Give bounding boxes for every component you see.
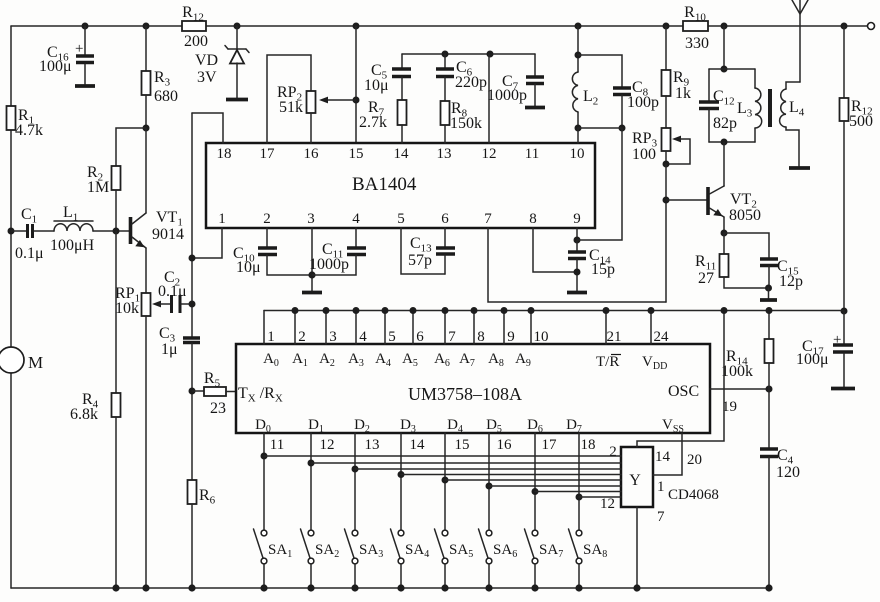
svg-text:Y: Y [629, 472, 641, 489]
svg-text:10μ: 10μ [364, 77, 389, 94]
wire left edge vertical (top rail to R1) [10, 26, 12, 106]
node base bias junction [113, 228, 120, 235]
capacitor C7 (1000p) [534, 54, 536, 76]
wire BA1404 pin 9 stub [576, 228, 578, 240]
svg-text:18: 18 [217, 146, 232, 162]
node R5 tap [189, 388, 196, 395]
resistor R6 [188, 480, 197, 504]
svg-text:1: 1 [267, 329, 275, 345]
capacitor C16 (100u) electrolytic [84, 26, 86, 55]
svg-text:10: 10 [534, 329, 549, 345]
resistor R11 (27) [723, 233, 725, 254]
svg-text:8: 8 [529, 211, 537, 227]
wire C8 line down to pin 9 node [577, 128, 622, 240]
svg-text:8050: 8050 [729, 207, 761, 224]
wire R3 node to R2 top [116, 128, 146, 166]
node R11/C15 bottom [765, 285, 772, 292]
wire BA1404 pin 8 to C14 bottom [533, 228, 577, 272]
inductor L2 [572, 72, 578, 112]
svg-text:17: 17 [260, 146, 276, 162]
wire main vertical net (pin18/pin1/C2/C3) [191, 113, 193, 337]
wire pin 12 to net [488, 54, 490, 143]
capacitor C8 (100p) [613, 86, 631, 90]
svg-text:OSC: OSC [668, 383, 699, 400]
resistor R12 (200) in top rail [182, 21, 206, 31]
svg-text:1000p: 1000p [309, 256, 349, 273]
capacitor C11 (1000p) under pin 4 [355, 228, 357, 247]
node dot L2 branch tap [575, 23, 582, 30]
svg-text:82p: 82p [713, 115, 737, 132]
svg-text:100p: 100p [627, 94, 659, 111]
wiper RP1 to C2 [152, 301, 161, 308]
wire C8 parallel branch [578, 55, 622, 87]
capacitor C10 (10u) under pin 2 [266, 228, 268, 247]
resistor R3 (680) [145, 26, 147, 71]
svg-text:13: 13 [437, 146, 452, 162]
switch SA1 D0 branch [263, 433, 265, 530]
transistor VT1 (9014) [129, 217, 133, 244]
switch SA6 D5 branch [488, 433, 490, 530]
svg-text:23: 23 [210, 400, 226, 417]
svg-text:24: 24 [654, 329, 670, 345]
svg-text:57p: 57p [408, 252, 432, 269]
node dot R9 branch tap [663, 23, 670, 30]
svg-text:500: 500 [849, 113, 873, 130]
svg-text:7: 7 [484, 211, 492, 227]
svg-text:11: 11 [525, 146, 539, 162]
wire CD4068 pin 7 to ground rail [636, 507, 638, 588]
svg-text:+: + [75, 41, 83, 57]
svg-text:27: 27 [698, 270, 714, 287]
svg-text:15: 15 [455, 437, 470, 453]
node dot tank branch tap [721, 23, 728, 30]
node L2/C8 bottom to pin 10 [575, 125, 582, 132]
svg-text:2: 2 [298, 329, 306, 345]
wire BA1404 pin 7 to RP3 bottom node [488, 228, 666, 302]
wire left edge vertical (mic to bottom rail) [10, 373, 12, 588]
resistor R5 (23) to TX/RX [192, 390, 204, 392]
svg-text:680: 680 [154, 88, 178, 105]
switch SA7 D6 branch [534, 433, 536, 530]
resistor R7 (2.7k) [398, 100, 407, 125]
wire VT2 base lead [666, 199, 708, 201]
svg-text:7: 7 [448, 329, 456, 345]
capacitor C14 (15p) [576, 240, 578, 251]
ground (C7) [525, 106, 545, 110]
svg-text:21: 21 [607, 329, 622, 345]
potentiometer RP1 (10k) [142, 293, 151, 316]
svg-text:9014: 9014 [152, 226, 184, 243]
wire UM3758 pins 2-10 stubs [295, 311, 531, 345]
svg-text:+: + [833, 332, 841, 348]
node dot R12(500) branch tap [841, 23, 848, 30]
svg-text:15: 15 [349, 146, 364, 162]
ground (VD) [226, 98, 248, 102]
svg-text:120: 120 [776, 464, 800, 481]
svg-text:1M: 1M [87, 179, 109, 196]
ground (pin3/C10/C11) [302, 291, 322, 295]
wiper RP3 [672, 136, 681, 143]
IC U1 BA1404 [206, 143, 595, 228]
switch SA8 D7 branch [578, 433, 580, 530]
resistor R1 (4.7k) [7, 106, 16, 130]
svg-text:10: 10 [570, 146, 585, 162]
svg-text:3: 3 [307, 211, 315, 227]
ground (C14) [567, 291, 587, 295]
resistor R8 (150k) [441, 101, 450, 125]
svg-text:4: 4 [352, 211, 360, 227]
svg-text:6: 6 [441, 211, 449, 227]
wire pins 12/13/14 net [402, 53, 535, 55]
wire tank branch from rail [723, 26, 725, 69]
wire BA1404 pin 3 to ground [311, 228, 313, 291]
resistor R9 (1k) [665, 26, 667, 70]
capacitor C13 (57p) between pins 5 and 6 [401, 228, 445, 274]
potentiometer RP2 (51k) [307, 91, 316, 113]
terminal (open circle, top right) [868, 23, 875, 30]
inductor L1 (100uH) [54, 220, 93, 222]
svg-text:100: 100 [632, 146, 656, 163]
node dot C16 tap [82, 23, 89, 30]
svg-text:5: 5 [388, 329, 396, 345]
capacitor C6 (220p) [444, 54, 446, 68]
svg-text:14: 14 [655, 449, 671, 465]
IC U3 CD4068 (Y gate) [621, 447, 653, 507]
wire RP3 bottom to VT2 base node [665, 164, 667, 302]
svg-text:7: 7 [657, 509, 665, 525]
svg-text:15p: 15p [591, 261, 615, 278]
resistor R14 (100k) [768, 311, 770, 340]
svg-text:M: M [28, 353, 43, 372]
wire UM3758 pin 1 stub [263, 311, 265, 345]
svg-text:3V: 3V [197, 69, 217, 86]
node dot VD tap [234, 23, 241, 30]
svg-text:UM3758–108A: UM3758–108A [408, 384, 522, 404]
svg-text:8: 8 [477, 329, 485, 345]
svg-text:12p: 12p [779, 273, 803, 290]
svg-text:2.7k: 2.7k [359, 114, 387, 131]
wire VDD bus [264, 310, 844, 312]
node A (R3/R2/VT1 collector junction) [143, 125, 150, 132]
svg-text:6.8k: 6.8k [70, 406, 98, 423]
capacitor C1 (0.1u) [11, 230, 26, 232]
capacitor C17 (100u) electrolytic [843, 311, 845, 344]
svg-text:20: 20 [687, 452, 702, 468]
svg-text:100μH: 100μH [50, 237, 95, 254]
svg-text:14: 14 [394, 146, 410, 162]
capacitor C4 (120) [768, 389, 770, 448]
svg-text:220p: 220p [455, 74, 487, 91]
switch SA5 D4 branch [444, 433, 446, 530]
svg-text:18: 18 [581, 437, 596, 453]
inductor L3 [754, 69, 756, 88]
svg-text:11: 11 [270, 437, 284, 453]
svg-text:10k: 10k [115, 300, 139, 317]
svg-text:4: 4 [359, 329, 367, 345]
svg-text:14: 14 [410, 437, 426, 453]
svg-text:0.1μ: 0.1μ [15, 245, 44, 262]
wire BA1404 pin 17 to RP2 top loop [267, 55, 311, 143]
node VT2 emitter [721, 230, 728, 237]
svg-text:9: 9 [573, 211, 581, 227]
svg-text:13: 13 [365, 437, 380, 453]
svg-text:T/R: T/R [596, 354, 619, 370]
svg-text:150k: 150k [450, 115, 482, 132]
wire CD4068 pin 14 to VDD bus [637, 311, 724, 448]
transformer core [768, 89, 772, 127]
svg-text:2: 2 [609, 444, 617, 460]
svg-text:BA1404: BA1404 [352, 174, 417, 195]
resistor R4 (6.8k) [115, 231, 117, 393]
node dot R3 tap [143, 23, 150, 30]
svg-text:VD: VD [195, 52, 218, 69]
switch SA4 D3 branch [400, 433, 402, 530]
switch SA2 D1 branch [310, 433, 312, 530]
svg-text:9: 9 [507, 329, 515, 345]
IC U2 UM3758-108A [236, 344, 710, 433]
svg-text:2: 2 [263, 211, 271, 227]
resistor R10 (330) in rail [683, 21, 708, 31]
antenna [799, 0, 801, 82]
ground (L4) [789, 166, 810, 170]
capacitor C3 (1u) in series on vertical net [183, 336, 200, 340]
svg-text:3: 3 [329, 329, 337, 345]
wire top supply rail left segment [11, 25, 182, 27]
svg-text:1: 1 [657, 479, 665, 495]
capacitor C15 (12p) [724, 233, 769, 258]
resistor R2 (1M) [112, 166, 121, 190]
svg-text:1μ: 1μ [161, 341, 178, 358]
svg-text:12: 12 [320, 437, 335, 453]
ground (R11/C15) [760, 298, 777, 302]
wire BA1404 pin 18 loop to audio line [192, 113, 223, 143]
svg-text:12: 12 [482, 146, 497, 162]
capacitor C2 (0.1u) [172, 295, 181, 313]
svg-text:1000p: 1000p [487, 87, 527, 104]
svg-text:16: 16 [304, 146, 320, 162]
svg-text:12: 12 [600, 496, 615, 512]
tank loop C12 / L3 [709, 68, 755, 70]
ground (C16) [75, 84, 95, 88]
wire top supply rail right segment [206, 25, 867, 27]
wire UM3758 pin 21 stub [605, 311, 607, 345]
zener diode VD (3V) [236, 26, 238, 49]
svg-text:6: 6 [416, 329, 424, 345]
svg-text:330: 330 [685, 35, 709, 52]
capacitor C12 (82p) [708, 69, 710, 101]
resistor R12 (500) right branch [843, 26, 845, 98]
svg-text:CD4068: CD4068 [668, 487, 719, 503]
switch SA3 D2 branch [354, 433, 356, 530]
wire UM3758 Vss pin 20 to CD4068 pin 1 [653, 433, 682, 475]
wire OSC pin 19 [710, 388, 769, 390]
svg-text:51k: 51k [279, 99, 303, 116]
ground (C17) [831, 387, 855, 391]
junction dots on bottom ground rail [112, 584, 119, 591]
wire bottom ground rail [11, 587, 769, 589]
inductor L4 [786, 82, 800, 89]
wire BA1404 pin 15 to rail [355, 26, 357, 143]
node dot pin15 line tap [353, 23, 360, 30]
microphone M [0, 347, 24, 373]
svg-text:17: 17 [542, 437, 558, 453]
svg-text:4.7k: 4.7k [15, 122, 43, 139]
node dot C1 tap on left line [8, 228, 15, 235]
capacitor C5 (10u) [401, 54, 403, 68]
svg-text:1k: 1k [675, 85, 691, 102]
transistor VT2 (8050) [723, 142, 725, 186]
svg-text:5: 5 [397, 211, 405, 227]
node dot RP2 wiper tap on pin15 line [353, 97, 360, 104]
svg-text:16: 16 [497, 437, 513, 453]
svg-text:100μ: 100μ [39, 58, 72, 75]
wire BA1404 pin 1 stub [192, 228, 222, 258]
wire L2 branch from rail [577, 26, 579, 72]
svg-text:10μ: 10μ [236, 259, 261, 276]
svg-text:200: 200 [184, 33, 208, 50]
wire UM3758 pin 24 stub [650, 311, 652, 345]
svg-text:1: 1 [218, 211, 226, 227]
svg-text:100k: 100k [721, 363, 753, 380]
node VDD bus right end [841, 308, 848, 315]
svg-text:100μ: 100μ [796, 351, 829, 368]
node dot pin1 junction [189, 255, 196, 262]
wire left edge vertical (R1 to mic) [10, 130, 12, 347]
svg-text:0.1μ: 0.1μ [158, 283, 187, 300]
potentiometer RP3 (100) [662, 128, 671, 151]
